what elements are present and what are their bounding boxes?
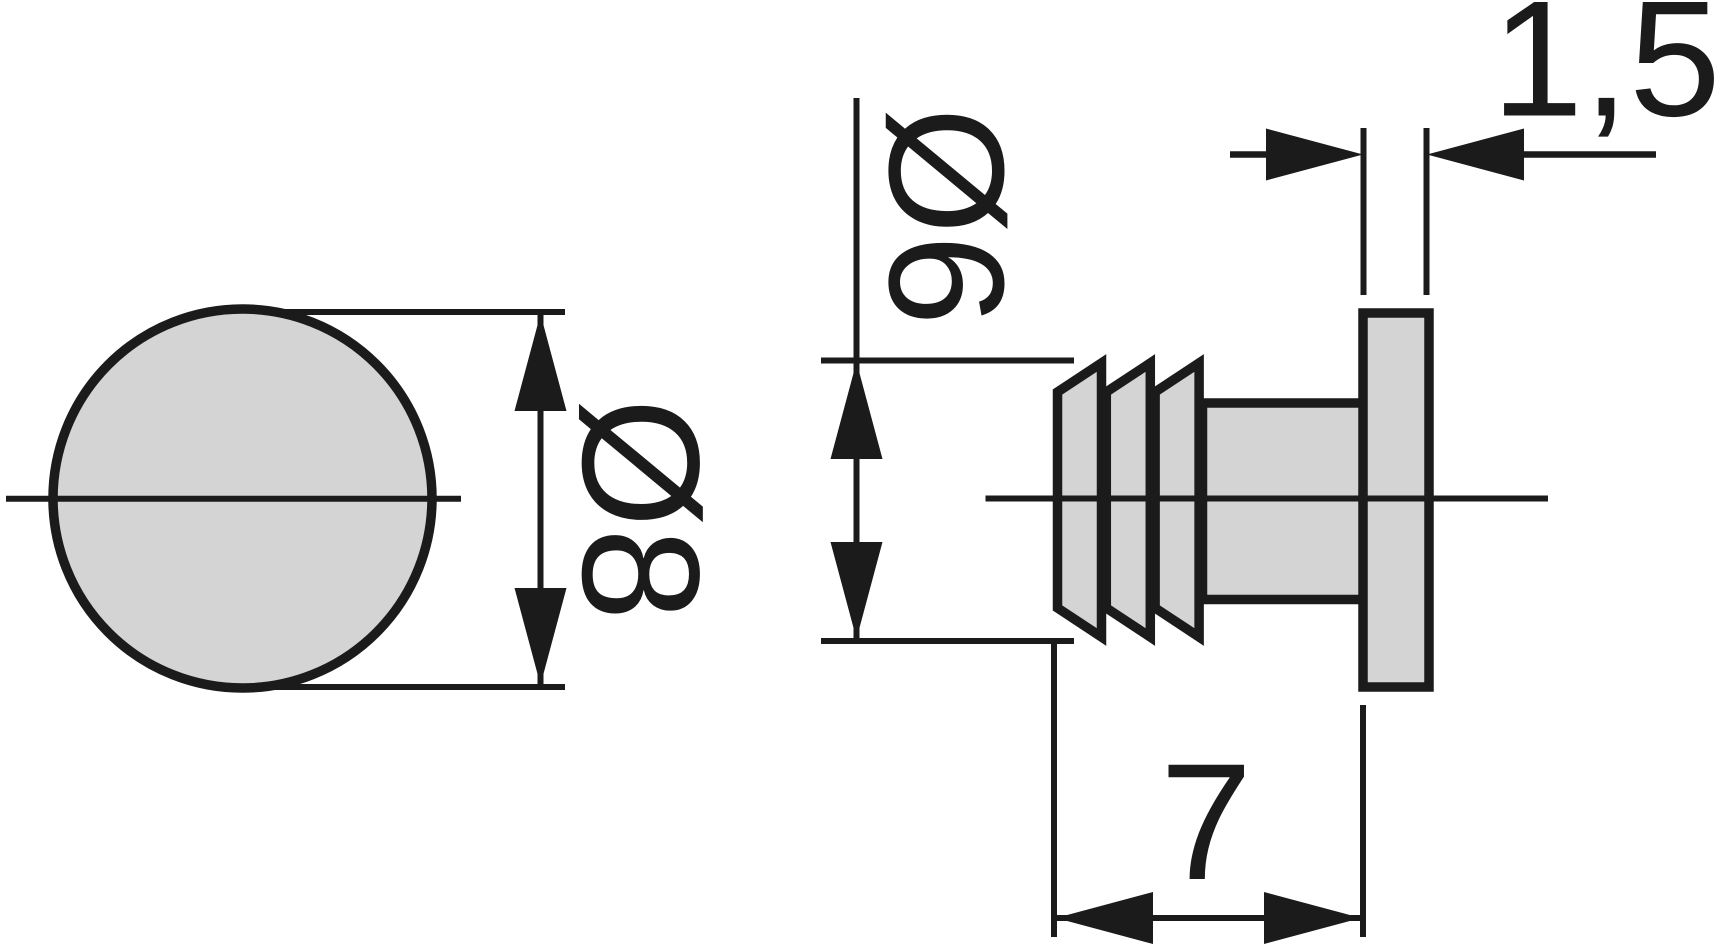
front view circle (cap head Ø8) (53, 309, 432, 688)
extension line right (7) (1360, 705, 1366, 937)
extension line left (7) (1051, 641, 1057, 937)
shaft (1203, 403, 1367, 600)
arrowhead up (Ø8) (515, 314, 567, 411)
extension line bottom (Ø8) (267, 684, 565, 690)
svg-text:1,5: 1,5 (1492, 0, 1720, 151)
extension line upper (Ø6) (821, 358, 1074, 364)
center line (side view) (986, 496, 1549, 502)
arrowhead down (Ø6) (831, 542, 883, 639)
leader line left (1,5) (1230, 151, 1266, 158)
arrowhead left-pointing (7) (1056, 892, 1153, 944)
svg-text:Ø6: Ø6 (855, 107, 1038, 326)
arrowhead left-pointing (1,5) (1427, 129, 1524, 181)
rib 2 (1106, 363, 1150, 637)
svg-text:Ø8: Ø8 (547, 398, 733, 621)
dimension line Ø6 (854, 98, 860, 638)
rib 1 (1058, 363, 1102, 637)
extension line left (1,5) (1361, 128, 1367, 295)
dimension line 7 (1056, 915, 1361, 921)
flange (1363, 313, 1429, 687)
arrowhead down (Ø8) (515, 588, 567, 685)
svg-text:7: 7 (1160, 730, 1252, 915)
arrowhead right-pointing (1,5) (1266, 129, 1363, 181)
extension line lower (Ø6) (821, 638, 1074, 644)
arrowhead up (Ø6) (831, 362, 883, 459)
leader line right (1,5) (1524, 151, 1656, 158)
extension line right (1,5) (1424, 128, 1430, 295)
center line (front view) (6, 496, 461, 502)
arrowhead right-pointing (7) (1264, 892, 1361, 944)
dimension line Ø8 (538, 314, 544, 685)
rib 3 (1155, 363, 1199, 637)
extension line top (Ø8) (267, 309, 565, 315)
